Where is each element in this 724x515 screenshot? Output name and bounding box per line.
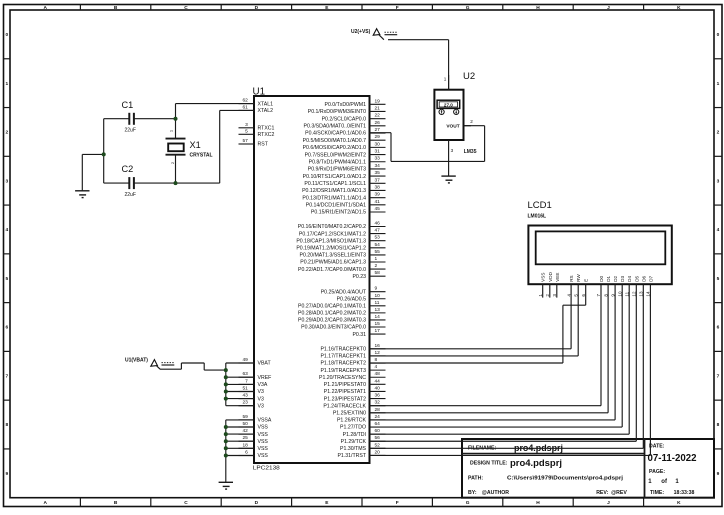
- U1 pin 11 P0.27/AD0.0/CAP0.1/MAT0.1 (right): [298, 300, 385, 310]
- svg-text:P0.4/SCK0/CAP0.1/AD0.6: P0.4/SCK0/CAP0.1/AD0.6: [305, 131, 366, 137]
- U1 pin 55 P0.20/MAT1.3/SSEL1/EINT3 (right): [299, 249, 385, 259]
- svg-text:P0.27/AD0.0/CAP0.1/MAT0.1: P0.27/AD0.0/CAP0.1/MAT0.1: [298, 304, 366, 310]
- U1 pin 31 P0.7/SSEL0/PWM2/EINT2 (right): [305, 149, 386, 159]
- title block DATE cell: [648, 444, 698, 465]
- svg-text:50: 50: [242, 421, 248, 427]
- svg-text:K: K: [677, 5, 681, 11]
- capacitor C2: [122, 164, 136, 198]
- svg-text:C: C: [184, 5, 188, 11]
- svg-text:LCD1: LCD1: [528, 200, 552, 211]
- svg-text:U2(+VS): U2(+VS): [351, 29, 371, 35]
- U1 pin 15 P0.30/AD0.3/EINT3/CAP0.0 (right): [301, 321, 385, 331]
- U1 pin 34 P0.9/RxD1/PWM6/EINT3 (right): [308, 163, 386, 173]
- svg-text:6: 6: [5, 325, 8, 331]
- svg-text:VSSA: VSSA: [258, 418, 272, 424]
- U1 pin 40 P1.22/PIPESTAT1 (right): [324, 385, 386, 395]
- svg-text:V3: V3: [258, 396, 264, 402]
- svg-text:43: 43: [242, 393, 248, 399]
- svg-text:49: 49: [242, 357, 248, 363]
- U2 pin 1 (+VS) stub: [444, 75, 449, 90]
- U1 pin 27 P0.4/SCK0/CAP0.1/AD0.6 (right): [305, 127, 385, 137]
- svg-text:P0.20/MAT1.3/SSEL1/EINT3: P0.20/MAT1.3/SSEL1/EINT3: [299, 253, 366, 259]
- svg-text:H: H: [536, 5, 540, 11]
- U1 pin 38 P0.12/DSR1/MAT1.0/AD1.3 (right): [302, 184, 385, 194]
- svg-text:6: 6: [717, 325, 720, 331]
- svg-text:8: 8: [717, 422, 720, 428]
- U1 pin 52 P1.30/TMS (right): [340, 442, 385, 452]
- crystal X1: [166, 129, 213, 164]
- title block BY row: [468, 490, 627, 496]
- svg-text:P0.14/DCD1/EINT1/SDA1: P0.14/DCD1/EINT1/SDA1: [306, 203, 366, 209]
- svg-text:35: 35: [375, 170, 381, 176]
- U2 display readout 27.0: [437, 100, 460, 108]
- svg-text:V3: V3: [258, 403, 264, 409]
- svg-text:VSS: VSS: [258, 432, 269, 438]
- U2 pin 2 VOUT stub: [464, 119, 474, 126]
- node junction C1/XTAL1: [174, 117, 178, 121]
- U1 pin 41 P0.14/DCD1/EINT1/SDA1 (right): [306, 199, 386, 209]
- U1 pin 20 P1.31/TRST (right): [337, 449, 385, 459]
- svg-text:59: 59: [242, 414, 248, 420]
- svg-text:42: 42: [242, 428, 248, 434]
- svg-text:P0.25/AD0.4/AOUT: P0.25/AD0.4/AOUT: [321, 289, 367, 295]
- svg-text:5: 5: [717, 276, 720, 282]
- wire LCD D7 to U1 pin row: [370, 284, 651, 455]
- svg-text:2: 2: [470, 119, 473, 124]
- U1 pin 35 P0.10/RTS1/CAP1.0/AD1.2 (right): [303, 170, 386, 180]
- svg-text:P0.15/RI1/EINT2/AD1.5: P0.15/RI1/EINT2/AD1.5: [311, 210, 366, 216]
- svg-text:0: 0: [5, 32, 8, 38]
- svg-text:1: 1: [375, 256, 378, 262]
- U1 pin 18 VSS (left): [239, 442, 269, 452]
- svg-text:P0.6/MOSI0/CAP0.2/AD1.0: P0.6/MOSI0/CAP0.2/AD1.0: [303, 145, 367, 151]
- svg-text:BY:: BY:: [468, 490, 477, 496]
- svg-text:VEE: VEE: [555, 273, 560, 282]
- U1 pin 61 XTAL2 (left): [239, 104, 274, 114]
- U1 pin 17 P0.31 (right): [352, 328, 385, 338]
- svg-text:0: 0: [717, 32, 720, 38]
- svg-text:3: 3: [717, 178, 720, 184]
- svg-text:P0.18/CAP1.3/MISO1/MAT1.3: P0.18/CAP1.3/MISO1/MAT1.3: [296, 238, 366, 244]
- svg-text:XTAL1: XTAL1: [258, 101, 274, 107]
- svg-text:4: 4: [5, 227, 8, 233]
- svg-text:36: 36: [375, 393, 381, 399]
- wire LCD D1 to U1 pin row: [370, 284, 609, 413]
- wire LCD D0 to U1 pin row: [370, 284, 602, 406]
- title block PATH row: [468, 475, 624, 481]
- svg-text:2: 2: [375, 263, 378, 269]
- U1 pin 2 P0.22/AD1.7/CAP0.0/MAT0.0 (right): [298, 263, 385, 273]
- svg-text:13: 13: [375, 307, 381, 313]
- svg-text:J: J: [607, 500, 610, 506]
- svg-text:RS: RS: [569, 275, 574, 281]
- wire LCD D6 to U1 pin row: [370, 284, 644, 448]
- U1 pin 1 P0.21/PWM5/AD1.6/CAP1.3 (right): [300, 256, 385, 266]
- svg-text:47: 47: [375, 228, 381, 234]
- svg-text:54: 54: [375, 242, 381, 248]
- svg-text:P1.18/TRACEPKT2: P1.18/TRACEPKT2: [320, 361, 366, 367]
- wire U2 VOUT to U1 P0.4 pin 27: [370, 126, 485, 162]
- svg-text:14: 14: [375, 314, 381, 320]
- svg-text:P0.5/MISO0/MAT0.1/AD0.7: P0.5/MISO0/MAT0.1/AD0.7: [303, 138, 366, 144]
- U1 pin 63 VREF (left): [239, 371, 272, 381]
- svg-text:19: 19: [375, 98, 381, 104]
- svg-text:52: 52: [375, 442, 381, 448]
- U1 pin 57 RST (left): [239, 138, 269, 148]
- svg-text:LM35: LM35: [464, 149, 477, 155]
- LCD1 unconnected pin stubs VSS VDD VEE: [543, 284, 557, 297]
- svg-text:P1.25/EXTIN0: P1.25/EXTIN0: [333, 410, 366, 416]
- U1 pin 16 P1.16/TRACEPKT0 (right): [320, 343, 385, 353]
- svg-text:P1.17/TRACEPKT1: P1.17/TRACEPKT1: [320, 354, 366, 360]
- svg-text:D5: D5: [634, 275, 639, 281]
- svg-text:P0.30/AD0.3/EINT3/CAP0.0: P0.30/AD0.3/EINT3/CAP0.0: [301, 325, 366, 331]
- svg-text:U1(VBAT): U1(VBAT): [125, 357, 148, 363]
- svg-text:PAGE:: PAGE:: [649, 469, 665, 475]
- U2 down button: [454, 109, 459, 114]
- svg-text:D4: D4: [627, 275, 632, 281]
- svg-text:15: 15: [375, 321, 381, 327]
- wire LCD E to U1 P1.18: [370, 284, 586, 363]
- svg-text:1: 1: [5, 81, 8, 87]
- svg-text:P1.19/TRACEPKT3: P1.19/TRACEPKT3: [320, 368, 366, 374]
- svg-text:18: 18: [242, 442, 248, 448]
- svg-text:25: 25: [242, 435, 248, 441]
- wire XTAL1 net: C1 to U1 XTAL1: [104, 104, 255, 139]
- svg-text:P1.22/PIPESTAT1: P1.22/PIPESTAT1: [324, 389, 366, 395]
- svg-text:11: 11: [375, 300, 380, 306]
- microcontroller U1 LPC2138 body: [253, 86, 370, 471]
- svg-text:D3: D3: [620, 275, 625, 281]
- title block FILENAME row: [468, 443, 563, 453]
- svg-text:CRYSTAL: CRYSTAL: [190, 153, 213, 159]
- svg-text:PATH:: PATH:: [468, 475, 483, 481]
- svg-text:P0.12/DSR1/MAT1.0/AD1.3: P0.12/DSR1/MAT1.0/AD1.3: [302, 188, 366, 194]
- U1 pin 23 V3 (left): [239, 400, 264, 410]
- svg-text:63: 63: [242, 371, 248, 377]
- svg-text:P0.29/AD0.2/CAP0.3/MAT0.3: P0.29/AD0.2/CAP0.3/MAT0.3: [298, 318, 366, 324]
- svg-text:P0.28/AD0.1/CAP0.2/MAT0.2: P0.28/AD0.1/CAP0.2/MAT0.2: [298, 311, 366, 317]
- svg-text:61: 61: [242, 104, 248, 110]
- svg-text:G: G: [466, 500, 470, 506]
- svg-text:U2: U2: [463, 71, 475, 82]
- svg-text:VSS: VSS: [258, 439, 269, 445]
- U1 pin 47 P0.17/CAP1.2/SCK1/MAT1.2 (right): [299, 228, 386, 238]
- U1 pin 49 VBAT (left): [239, 357, 272, 367]
- svg-text:2: 2: [5, 130, 8, 136]
- wire power bus to VBAT/VREF/V3A/V3 pins: [226, 363, 255, 406]
- svg-text:9: 9: [375, 286, 378, 292]
- svg-text:P1.21/PIPESTAT0: P1.21/PIPESTAT0: [324, 382, 366, 388]
- svg-text:LPC2138: LPC2138: [253, 466, 280, 472]
- U1 pin 7 V3A (left): [239, 378, 268, 388]
- svg-text:20: 20: [375, 449, 381, 455]
- svg-text:F: F: [396, 500, 399, 506]
- svg-text:C: C: [184, 500, 188, 506]
- svg-text:P0.26/AD0.5: P0.26/AD0.5: [337, 296, 367, 302]
- svg-text:7: 7: [245, 378, 248, 384]
- power flag U2(+VS): [351, 29, 397, 36]
- LCD1 screen area: [536, 231, 666, 264]
- svg-text:33: 33: [375, 156, 381, 162]
- wire LCD D3 to U1 pin row: [370, 284, 623, 427]
- svg-text:27: 27: [375, 127, 381, 133]
- svg-text:F: F: [396, 5, 399, 11]
- svg-text:VSS: VSS: [258, 446, 269, 452]
- U1 pin 53 P0.18/CAP1.3/MISO1/MAT1.3 (right): [296, 235, 385, 245]
- LCD1 pin name labels (rotated): [541, 271, 654, 281]
- U1 pin 14 P0.29/AD0.2/CAP0.3/MAT0.3 (right): [298, 314, 385, 324]
- svg-text:V3: V3: [258, 389, 264, 395]
- wire LCD RW to U1 P1.17: [370, 284, 579, 356]
- svg-text:DATE:: DATE:: [649, 444, 665, 450]
- svg-text:16: 16: [375, 343, 381, 349]
- svg-text:P0.11/CTS1/CAP1.1/SCL1: P0.11/CTS1/CAP1.1/SCL1: [304, 181, 366, 187]
- U1 pin 48 P1.20/TRACESYNC (right): [319, 371, 386, 381]
- U1 pin 58 P0.23 (right): [352, 270, 385, 280]
- svg-text:H: H: [536, 500, 540, 506]
- svg-text:4: 4: [375, 364, 378, 370]
- node junctions on VSS bus: [224, 425, 228, 458]
- svg-text:P1.24/TRACECLK: P1.24/TRACECLK: [323, 403, 366, 409]
- svg-text:DESIGN TITLE:: DESIGN TITLE:: [470, 461, 508, 467]
- svg-text:VDD: VDD: [548, 271, 553, 281]
- wire LCD RS to U1 P1.16: [370, 284, 572, 349]
- svg-text:B: B: [114, 5, 118, 11]
- svg-text:P1.27/TDO: P1.27/TDO: [340, 425, 366, 431]
- svg-text:P0.17/CAP1.2/SCK1/MAT1.2: P0.17/CAP1.2/SCK1/MAT1.2: [299, 231, 366, 237]
- node junction ground tap: [102, 152, 106, 156]
- svg-text:6: 6: [245, 450, 248, 456]
- U1 pin 25 VSS (left): [239, 435, 269, 445]
- svg-text:24: 24: [375, 414, 381, 420]
- svg-text:57: 57: [242, 138, 248, 144]
- U1 pin 4 P1.19/TRACEPKT3 (right): [320, 364, 385, 374]
- U1 pin 22 P0.2/SCL0/CAP0.0 (right): [322, 113, 386, 123]
- svg-text:D: D: [255, 5, 259, 11]
- U1 pin 10 P0.26/AD0.5 (right): [337, 293, 386, 303]
- U2 up button: [439, 109, 444, 114]
- U1 pin 5 RTXC2 (left): [239, 128, 275, 138]
- svg-text:VOUT: VOUT: [446, 123, 459, 129]
- svg-text:9: 9: [5, 471, 8, 477]
- svg-text:XTAL2: XTAL2: [258, 108, 274, 114]
- svg-text:P0.2/SCL0/CAP0.0: P0.2/SCL0/CAP0.0: [322, 116, 367, 122]
- U2 pin 3 GND stub: [449, 140, 454, 176]
- svg-text:18:33:38: 18:33:38: [674, 490, 695, 496]
- svg-text:P0.23: P0.23: [352, 274, 366, 280]
- svg-text:RW: RW: [576, 274, 581, 282]
- svg-text:P1.26/RTCK: P1.26/RTCK: [337, 418, 367, 424]
- LCD1 LM016L body: [528, 200, 672, 284]
- svg-text:7: 7: [717, 373, 720, 379]
- svg-text:P1.20/TRACESYNC: P1.20/TRACESYNC: [319, 375, 366, 381]
- U1 pin 19 P0.0/TxD0/PWM1 (right): [324, 98, 385, 108]
- svg-text:J: J: [607, 5, 610, 11]
- U1 pin 42 VSS (left): [239, 428, 269, 438]
- U1 pin 43 V3 (left): [239, 393, 264, 403]
- U1 pin 28 P1.25/EXTIN0 (right): [333, 407, 386, 417]
- ground symbol (VSS bus): [219, 482, 233, 489]
- svg-text:60: 60: [375, 428, 381, 434]
- svg-text:VBAT: VBAT: [258, 361, 272, 367]
- svg-text:P0.8/TxD1/PWM4/AD1.1: P0.8/TxD1/PWM4/AD1.1: [309, 159, 366, 165]
- svg-text:RTXC1: RTXC1: [258, 126, 275, 132]
- svg-text:4: 4: [717, 227, 720, 233]
- svg-text:7: 7: [5, 373, 8, 379]
- U1 pin 33 P0.8/TxD1/PWM4/AD1.1 (right): [309, 156, 386, 166]
- svg-text:8: 8: [5, 422, 8, 428]
- svg-text:37: 37: [375, 177, 381, 183]
- svg-text:@REV: @REV: [611, 490, 627, 496]
- wire VSS ground bus: [226, 420, 255, 482]
- svg-text:U1: U1: [253, 86, 266, 97]
- svg-text:REV:: REV:: [596, 490, 608, 496]
- U1 pin 54 P0.19/MAT1.2/MOSI1/CAP1.2 (right): [296, 242, 385, 252]
- svg-text:27.0: 27.0: [444, 102, 453, 107]
- svg-text:G: G: [466, 5, 470, 11]
- U1 pin 9 P0.25/AD0.4/AOUT (right): [321, 286, 386, 296]
- svg-text:3: 3: [5, 178, 8, 184]
- svg-text:23: 23: [242, 400, 248, 406]
- svg-text:P1.29/TCK: P1.29/TCK: [341, 439, 367, 445]
- svg-text:29: 29: [375, 134, 381, 140]
- svg-text:39: 39: [375, 192, 381, 198]
- U1 pin 24 P1.26/RTCK (right): [337, 414, 386, 424]
- svg-text:56: 56: [375, 435, 381, 441]
- U1 pin 60 P1.28/TDI (right): [343, 428, 386, 438]
- svg-text:9: 9: [717, 471, 720, 477]
- svg-text:64: 64: [375, 421, 381, 427]
- svg-text:30: 30: [375, 141, 381, 147]
- U1 pin 26 P0.3/SDA0/MAT0..0/EINT1 (right): [304, 120, 386, 130]
- U1 pin 3 RTXC1 (left): [239, 122, 275, 132]
- capacitor C1: [122, 100, 136, 134]
- svg-text:P1.31/TRST: P1.31/TRST: [337, 453, 366, 459]
- svg-text:12: 12: [375, 350, 381, 356]
- U1 pin 64 P1.27/TDO (right): [340, 421, 385, 431]
- svg-text:TIME:: TIME:: [650, 490, 664, 496]
- U1 pin 56 P1.29/TCK (right): [341, 435, 386, 445]
- svg-text:26: 26: [375, 120, 381, 126]
- svg-text:D7: D7: [648, 275, 653, 281]
- U1 pin 50 VSS (left): [239, 421, 269, 431]
- svg-text:34: 34: [375, 163, 381, 169]
- svg-text:40: 40: [375, 385, 381, 391]
- svg-text:46: 46: [375, 221, 381, 227]
- svg-text:E: E: [584, 279, 589, 282]
- wire ground bus left of C1/C2: [82, 119, 103, 191]
- svg-text:P1.16/TRACEPKT0: P1.16/TRACEPKT0: [320, 347, 366, 353]
- svg-text:X1: X1: [190, 140, 201, 150]
- svg-text:VSS: VSS: [258, 425, 269, 431]
- wire U1(VBAT) flag to power bus: [157, 363, 226, 370]
- U1 pin 12 P1.17/TRACEPKT1 (right): [320, 350, 385, 360]
- svg-text:P0.16/EINT0/MAT0.2/CAP0.2: P0.16/EINT0/MAT0.2/CAP0.2: [298, 224, 366, 230]
- node junctions on power bus: [224, 368, 228, 401]
- svg-text:48: 48: [375, 371, 381, 377]
- svg-text:07-11-2022: 07-11-2022: [648, 453, 698, 464]
- power flag U1(VBAT): [125, 357, 174, 366]
- svg-text:P0.10/RTS1/CAP1.0/AD1.2: P0.10/RTS1/CAP1.0/AD1.2: [303, 174, 366, 180]
- svg-text:D2: D2: [613, 275, 618, 281]
- svg-text:D: D: [255, 500, 259, 506]
- svg-text:1: 1: [717, 81, 720, 87]
- svg-text:VSS: VSS: [258, 453, 269, 459]
- svg-text:5: 5: [5, 276, 8, 282]
- U1 pin 29 P0.5/MISO0/MAT0.1/AD0.7 (right): [303, 134, 386, 144]
- svg-text:P1.23/PIPESTAT2: P1.23/PIPESTAT2: [324, 396, 366, 402]
- svg-text:17: 17: [375, 328, 381, 334]
- svg-text:V3A: V3A: [258, 382, 268, 388]
- svg-text:C:\Users\91979\Documents\pro4.: C:\Users\91979\Documents\pro4.pdsprj: [507, 475, 624, 481]
- svg-text:LM016L: LM016L: [528, 213, 547, 219]
- svg-text:RTXC2: RTXC2: [258, 132, 275, 138]
- U1 pin 62 XTAL1 (left): [239, 98, 274, 108]
- svg-text:44: 44: [375, 378, 381, 384]
- U1 pin 37 P0.11/CTS1/CAP1.1/SCL1 (right): [304, 177, 385, 187]
- svg-text:22: 22: [375, 113, 381, 119]
- node junction C2/crystal/XTAL2: [174, 181, 178, 185]
- svg-text:51: 51: [242, 386, 248, 392]
- svg-text:53: 53: [375, 235, 381, 241]
- U1 pin 46 P0.16/EINT0/MAT0.2/CAP0.2 (right): [298, 221, 386, 231]
- svg-text:28: 28: [375, 407, 381, 413]
- svg-text:P0.22/AD1.7/CAP0.0/MAT0.0: P0.22/AD1.7/CAP0.0/MAT0.0: [298, 267, 366, 273]
- svg-text:C2: C2: [122, 164, 134, 174]
- svg-text:D1: D1: [606, 275, 611, 281]
- U1 pin 59 VSSA (left): [239, 414, 272, 424]
- U1 pin 21 P0.1/RxD0/PWM3/EINT0 (right): [308, 105, 386, 115]
- ground symbol (crystal circuit): [75, 191, 89, 198]
- U1 pin 13 P0.28/AD0.1/CAP0.2/MAT0.2 (right): [298, 307, 385, 317]
- U1 pin 45 P0.15/RI1/EINT2/AD1.5 (right): [311, 206, 386, 216]
- U1 pin 30 P0.6/MOSI0/CAP0.2/AD1.0 (right): [303, 141, 386, 151]
- svg-text:P1.28/TDI: P1.28/TDI: [343, 432, 366, 438]
- U1 pin 6 VSS (left): [239, 450, 269, 460]
- title block: [462, 439, 714, 498]
- title block DESIGN TITLE row: [470, 458, 562, 468]
- svg-text:10: 10: [375, 293, 381, 299]
- svg-text:P0.9/RxD1/PWM6/EINT3: P0.9/RxD1/PWM6/EINT3: [308, 167, 366, 173]
- svg-text:22uF: 22uF: [125, 128, 136, 134]
- svg-text:55: 55: [375, 249, 381, 255]
- svg-text:P0.19/MAT1.2/MOSI1/CAP1.2: P0.19/MAT1.2/MOSI1/CAP1.2: [296, 246, 366, 252]
- svg-text:D0: D0: [599, 275, 604, 281]
- svg-text:P0.31: P0.31: [352, 332, 366, 338]
- svg-text:1: 1: [444, 76, 447, 81]
- svg-text:5: 5: [245, 128, 248, 134]
- wire LCD D2 to U1 pin row: [370, 284, 616, 420]
- svg-text:58: 58: [375, 270, 381, 276]
- svg-text:P1.30/TMS: P1.30/TMS: [340, 446, 366, 452]
- svg-text:A: A: [43, 500, 47, 506]
- svg-text:VSS: VSS: [541, 273, 546, 282]
- svg-text:C1: C1: [122, 100, 134, 110]
- svg-text:3: 3: [451, 148, 454, 153]
- ground symbol (under U2): [441, 176, 455, 183]
- svg-text:41: 41: [375, 199, 381, 205]
- svg-text:@AUTHOR: @AUTHOR: [482, 490, 510, 496]
- U1 pin 32 P1.24/TRACECLK (right): [323, 400, 385, 410]
- U1 pin 8 P1.18/TRACEPKT2 (right): [320, 357, 385, 367]
- svg-text:8: 8: [375, 357, 378, 363]
- svg-text:P0.13/DTR1/MAT1.1/AD1.4: P0.13/DTR1/MAT1.1/AD1.4: [302, 195, 366, 201]
- wire XTAL2 net: C2 to U1 XTAL2: [104, 110, 255, 183]
- svg-text:B: B: [114, 500, 118, 506]
- svg-text:32: 32: [375, 400, 381, 406]
- svg-text:2: 2: [717, 130, 720, 136]
